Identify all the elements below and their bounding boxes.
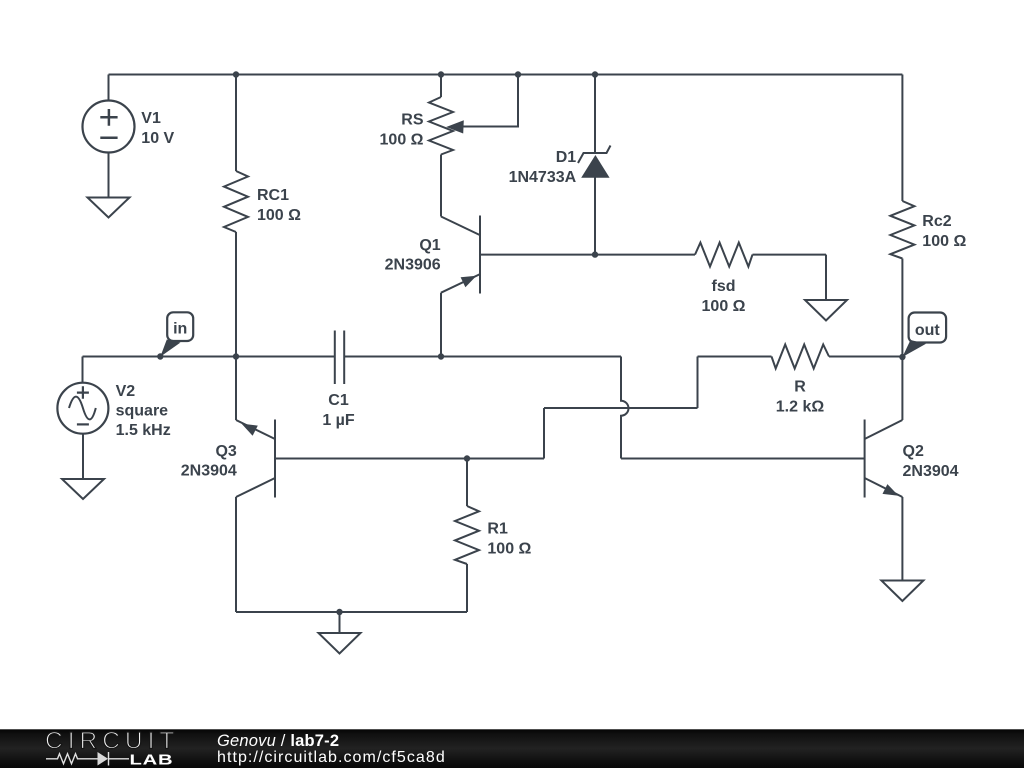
svg-text:R1: R1 (487, 521, 508, 538)
wire main right (344, 356, 621, 358)
transistor Q1 (441, 216, 480, 294)
wire V1 to ground (108, 152, 110, 198)
wire R1 top (466, 459, 468, 507)
svg-text:out: out (915, 322, 941, 339)
svg-text:in: in (173, 321, 187, 338)
voltage source V2 (57, 383, 108, 434)
svg-text:R: R (794, 379, 806, 396)
svg-text:fsd: fsd (712, 278, 736, 295)
resistor R1 (455, 506, 479, 564)
svg-text:LAB: LAB (129, 751, 173, 768)
wire Q1 base (480, 254, 595, 256)
node dot RC1 bottom (233, 353, 239, 359)
node dot top RC1 (233, 71, 239, 77)
svg-text:2N3906: 2N3906 (385, 257, 441, 274)
wire V2 top (82, 357, 84, 383)
wire fsd left (595, 254, 695, 256)
ground V1 (88, 198, 130, 218)
wire Q3 collector (235, 497, 237, 612)
node dot ground mid (336, 609, 342, 615)
logo resistor diode art (46, 752, 129, 766)
node dot Q1 emitter (438, 353, 444, 359)
arrow Q3 emitter (242, 424, 258, 436)
svg-text:1.5 kHz: 1.5 kHz (116, 422, 171, 439)
transistor Q2 (865, 420, 903, 498)
svg-text:1 µF: 1 µF (322, 412, 355, 429)
svg-text:RC1: RC1 (257, 187, 289, 204)
capacitor C1 (335, 331, 344, 385)
svg-text:1.2 kΩ: 1.2 kΩ (776, 399, 825, 416)
node dot D1 fsd (592, 251, 598, 257)
wire RC1 top (235, 75, 237, 172)
diode D1 zener (578, 146, 611, 164)
node out flag tail (902, 340, 926, 357)
wire riser left (543, 408, 545, 459)
svg-text:Rc2: Rc2 (922, 213, 951, 230)
wire mid horizontal (544, 407, 698, 409)
wire D1 top (594, 75, 596, 154)
diode D1 triangle (581, 155, 609, 178)
node dot top wiper (515, 71, 521, 77)
arrow RS wiper (446, 120, 464, 133)
svg-text:2N3904: 2N3904 (903, 463, 959, 480)
node dot out (899, 354, 905, 360)
ground mid (319, 633, 361, 654)
logo LAB (129, 751, 173, 768)
node dot top D1 (592, 71, 598, 77)
ground Q2 (881, 581, 923, 602)
node in flag tail (160, 340, 180, 357)
svg-text:100 Ω: 100 Ω (702, 298, 746, 315)
svg-text:RS: RS (401, 112, 424, 129)
potentiometer RS (429, 97, 453, 155)
ground V2 (62, 479, 104, 499)
wire V1 top (108, 75, 110, 102)
svg-text:100 Ω: 100 Ω (380, 131, 424, 148)
wire riser right (697, 357, 699, 409)
svg-text:Q1: Q1 (419, 237, 440, 254)
svg-text:C1: C1 (328, 392, 349, 409)
svg-text:V2: V2 (116, 383, 136, 400)
svg-text:Genovu / lab7-2: Genovu / lab7-2 (217, 732, 339, 750)
wire Q1 emitter (440, 293, 442, 357)
wire RS top (440, 75, 442, 98)
svg-text:1N4733A: 1N4733A (509, 169, 577, 186)
ground fsd (805, 300, 847, 321)
svg-text:D1: D1 (556, 149, 577, 166)
transistor Q3 (236, 420, 275, 498)
wire Q2 base (621, 458, 865, 460)
wire mid ground stub (339, 612, 341, 633)
wire main left (83, 356, 335, 358)
wire RC1 bottom to Q3 emitter (235, 232, 237, 420)
svg-text:100 Ω: 100 Ω (257, 207, 301, 224)
svg-text:100 Ω: 100 Ω (487, 541, 531, 558)
arrow Q1 emitter (461, 276, 477, 287)
wire bottom bus (236, 611, 467, 613)
svg-text:Q3: Q3 (215, 443, 236, 460)
resistor R (772, 345, 830, 369)
wire R1 bottom (466, 564, 468, 612)
svg-text:Q2: Q2 (903, 443, 924, 460)
wire Q2 emitter (901, 497, 903, 581)
resistor RC1 (224, 171, 248, 232)
svg-text:10 V: 10 V (141, 130, 174, 147)
wire fsd right (753, 254, 827, 256)
wire Q3 base (275, 458, 544, 460)
svg-text:100 Ω: 100 Ω (922, 233, 966, 250)
wire RS wiper (464, 75, 519, 127)
wire Q2 collector (901, 357, 903, 420)
voltage source V1 (83, 101, 135, 153)
resistor Rc2 (890, 201, 914, 259)
wire R left (698, 356, 772, 358)
svg-text:http://circuitlab.com/cf5ca8d: http://circuitlab.com/cf5ca8d (217, 749, 446, 766)
wire RS bottom (440, 155, 442, 217)
wire Rc2 top (901, 75, 903, 202)
wire Rc2 bottom (901, 259, 903, 358)
wire V2 to ground (82, 434, 84, 480)
svg-text:square: square (116, 403, 169, 420)
wire R right (829, 356, 902, 358)
node out flag box (909, 313, 947, 343)
wire fsd ground stub (825, 255, 827, 300)
wire hop vertical (621, 357, 629, 459)
node dot in (157, 353, 163, 359)
resistor fsd (695, 243, 753, 267)
node dot R1 top (464, 455, 470, 461)
wire top bus (109, 74, 903, 76)
wire D1 bottom (594, 177, 596, 255)
svg-text:2N3904: 2N3904 (181, 463, 237, 480)
node dot top RS (438, 71, 444, 77)
node in flag box (167, 312, 193, 341)
svg-text:V1: V1 (141, 110, 161, 127)
arrow Q2 emitter (883, 484, 899, 496)
